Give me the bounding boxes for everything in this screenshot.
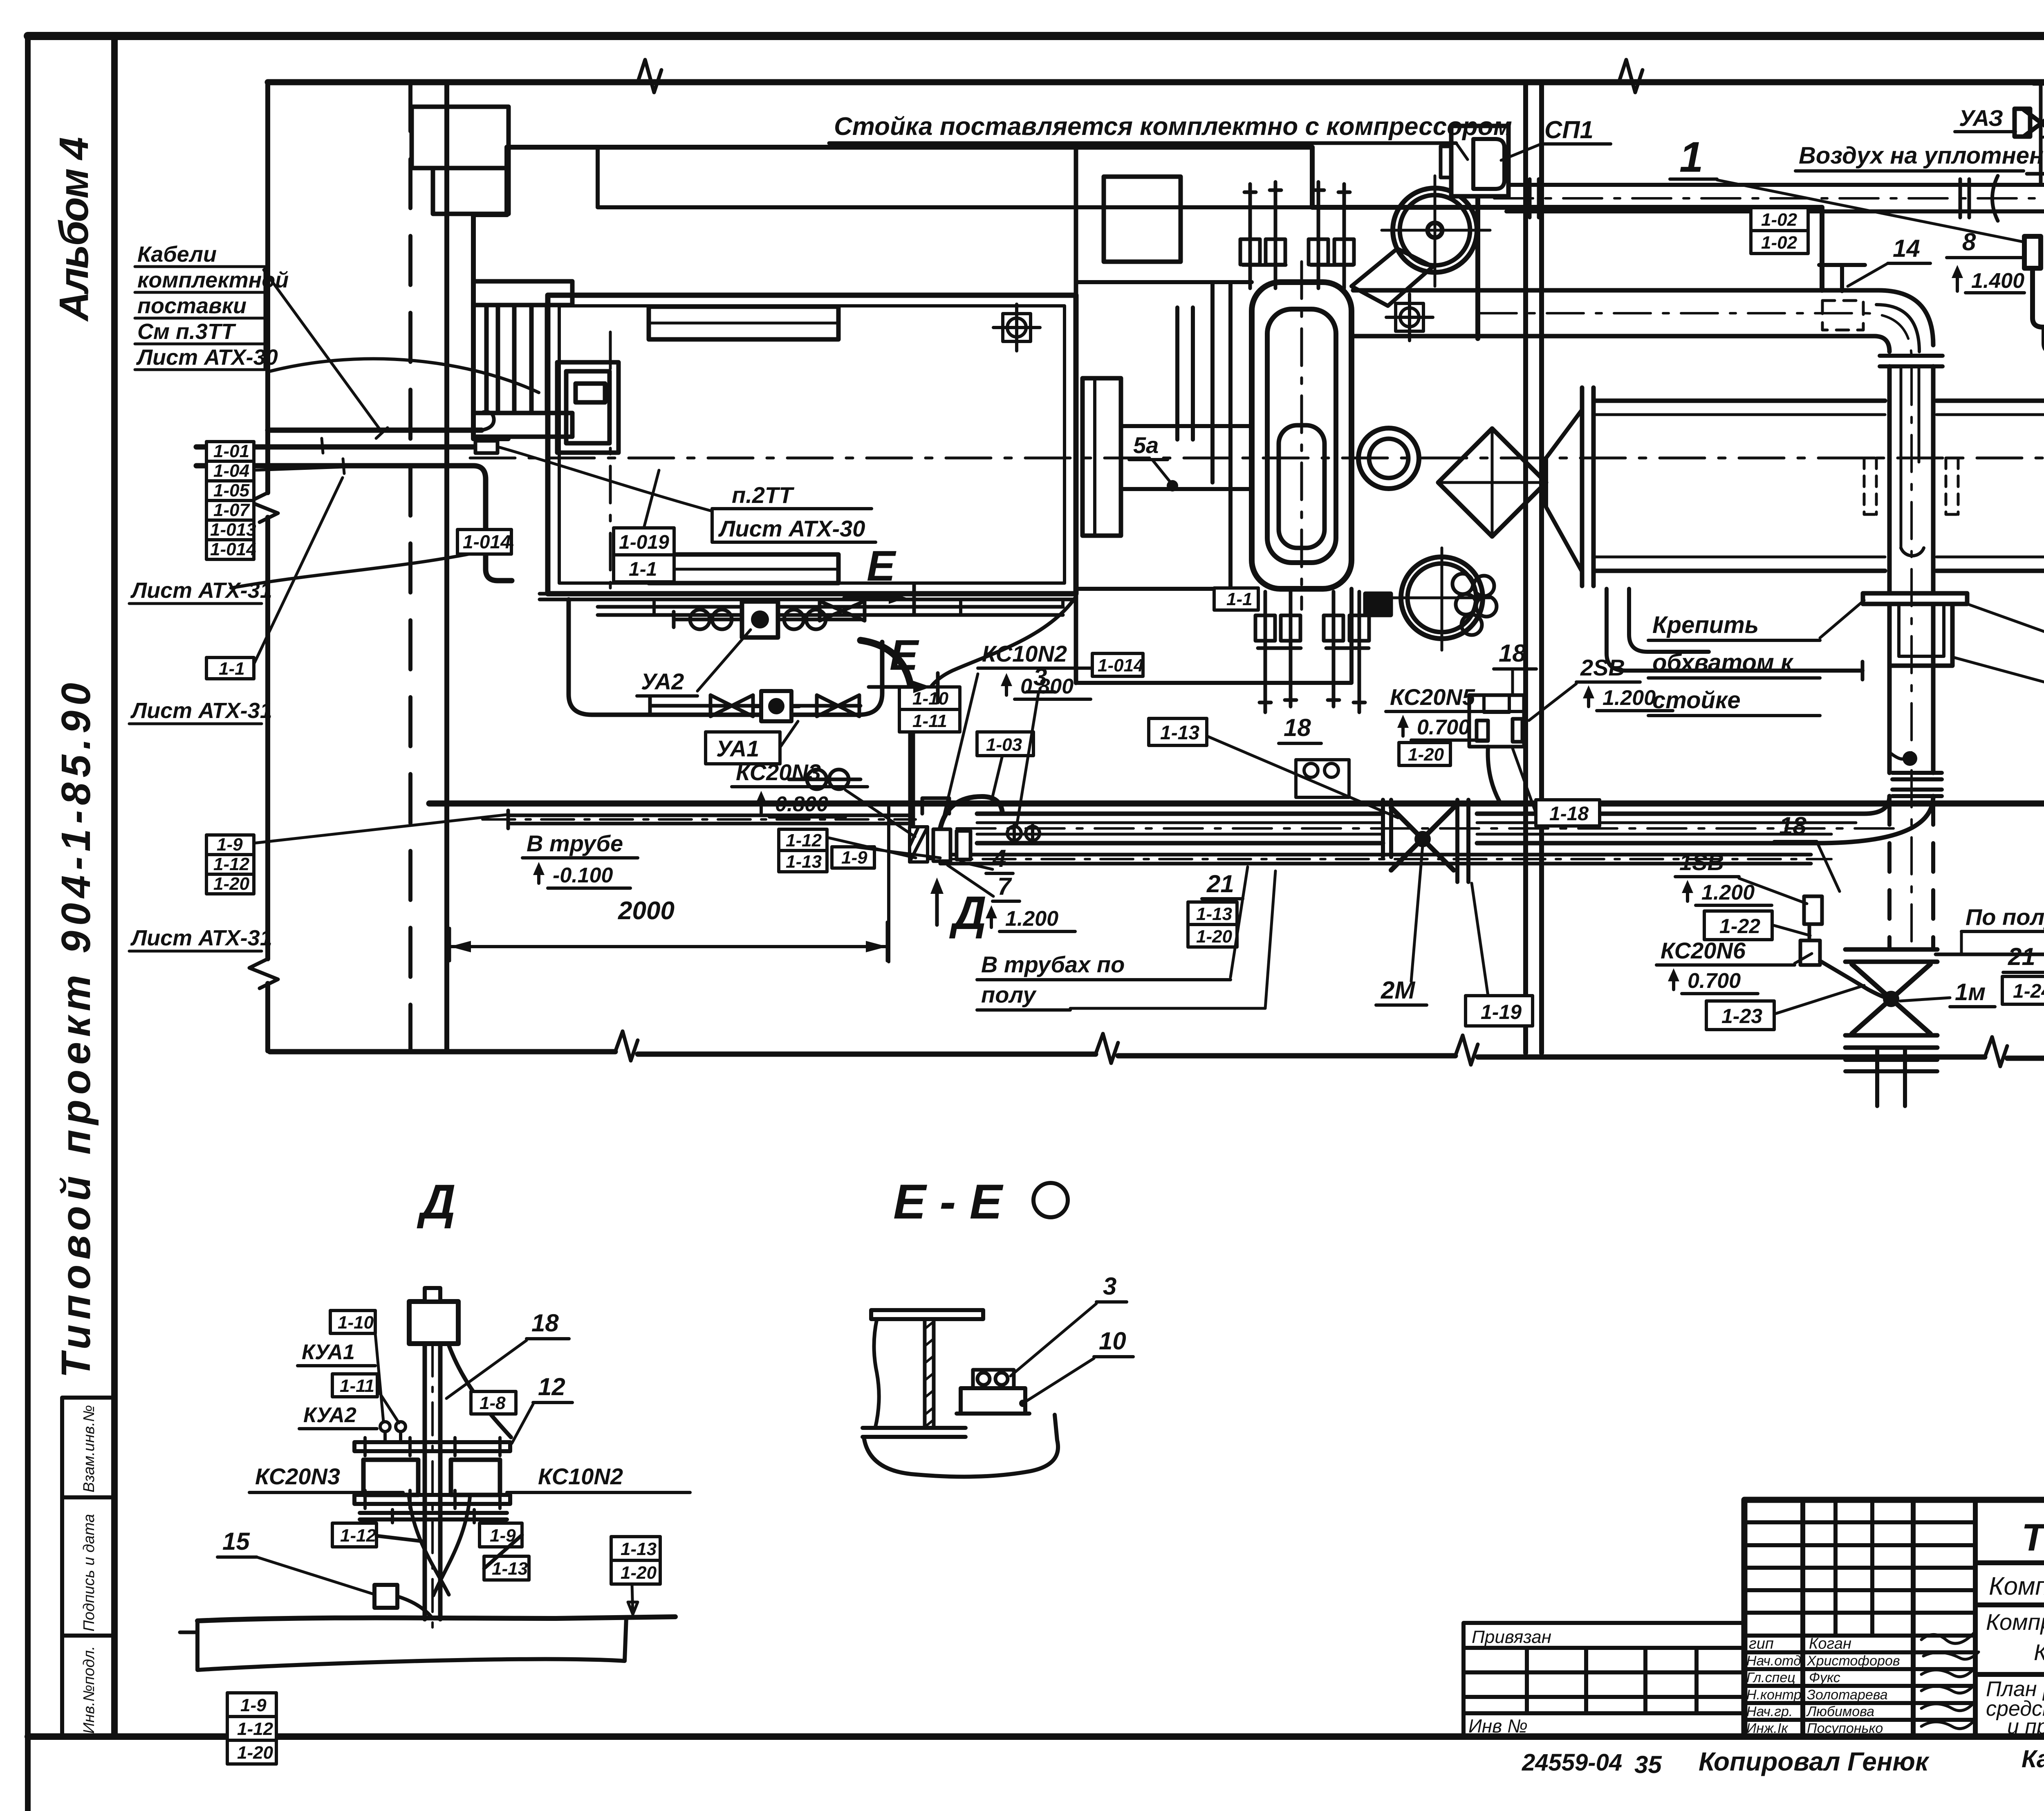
cable 2 connector	[475, 441, 498, 453]
revision grid rows	[1744, 1522, 1975, 1636]
plan bottom line	[270, 1052, 2044, 1058]
coupling flange plate	[1083, 378, 1121, 536]
section D arrow	[930, 877, 986, 939]
I-beam top flange	[871, 1310, 983, 1319]
label UA1 boxed	[706, 732, 780, 764]
freehand cable curve upper	[270, 359, 539, 393]
leader 1SB	[1739, 878, 1807, 904]
pipe L centerline	[482, 818, 916, 821]
pipe B lower flange	[1892, 773, 1942, 796]
UA1 valve right	[817, 695, 859, 716]
elbow mid arc	[1876, 305, 1919, 352]
leader 1m	[1900, 998, 1950, 1001]
candles top	[1240, 182, 1354, 288]
svg-text:Н.контр.: Н.контр.	[1746, 1687, 1805, 1703]
svg-text:1-10: 1-10	[338, 1313, 374, 1333]
svg-text:Е: Е	[890, 631, 919, 679]
screw square right	[1386, 294, 1433, 341]
leader 11	[1968, 604, 2044, 671]
leader 12	[512, 1404, 533, 1443]
dot 5a	[1167, 480, 1178, 491]
machine mid divider	[1074, 147, 1078, 683]
callout 1-014 mid	[1092, 653, 1144, 676]
UA2 solenoid dot	[751, 610, 769, 628]
motor top fin block	[649, 307, 838, 339]
callout 1-11	[332, 1374, 377, 1397]
leader 2M	[1411, 846, 1423, 981]
svg-text:1-1: 1-1	[1226, 589, 1253, 609]
callout 1-1 left	[206, 658, 254, 679]
svg-text:1-19: 1-19	[1481, 1001, 1522, 1023]
leader 1-18	[1513, 748, 1536, 813]
callout 1-12	[332, 1523, 377, 1547]
fan circle bottom	[1401, 557, 1483, 639]
svg-text:Компрессорная станция: Компрессорная станция	[1986, 1609, 2044, 1635]
black connector on machine	[1365, 594, 1391, 615]
svg-text:1.400: 1.400	[1971, 269, 2024, 293]
svg-text:24559-04: 24559-04	[1522, 1749, 1622, 1776]
svg-text:УА1: УА1	[716, 736, 759, 761]
pipe A centerline curve	[1480, 313, 1912, 360]
svg-text:В трубе: В трубе	[527, 830, 623, 856]
bracket plate top	[473, 281, 572, 305]
pipe M inner walls	[977, 823, 1856, 834]
svg-text:18: 18	[1499, 640, 1526, 667]
svg-text:1.200: 1.200	[1701, 881, 1755, 904]
fan cross top	[1382, 176, 1490, 286]
fan circle top inner	[1400, 195, 1470, 265]
step rect top-left 1	[412, 107, 509, 168]
fan hub top	[1428, 223, 1442, 238]
po polu label	[1961, 904, 2044, 931]
p2TT leader	[500, 447, 712, 511]
svg-text:Альбом 4: Альбом 4	[51, 137, 97, 322]
svg-text:Кабели: Кабели	[137, 242, 217, 267]
leader 18-3	[1817, 842, 1840, 891]
gland circles	[380, 1422, 406, 1442]
label 3	[1027, 663, 1055, 692]
verticals of left part	[1803, 1500, 1975, 1737]
KC20N5 cable	[1488, 747, 1499, 801]
leader v trubakh	[1070, 867, 1275, 1008]
cable gland circles	[1007, 825, 1040, 842]
platform top outline	[507, 147, 1822, 290]
svg-text:Взам.инв.№: Взам.инв.№	[81, 1405, 98, 1492]
bracket columns	[486, 305, 547, 413]
svg-text:1-11: 1-11	[340, 1376, 374, 1396]
svg-text:1-12: 1-12	[237, 1719, 273, 1739]
krepit text	[1648, 612, 1820, 716]
pipe B centerline	[1910, 368, 1913, 953]
I-beam bottom flange	[863, 1428, 966, 1437]
lower stub valve	[789, 770, 861, 789]
pipe B inner lines	[1901, 366, 1919, 548]
label KC20N6	[1656, 938, 1795, 994]
main outline	[1744, 1500, 2044, 1737]
svg-text:По полу: По полу	[1966, 904, 2044, 930]
svg-text:п.2ТТ: п.2ТТ	[732, 482, 795, 508]
svg-text:КС20N5: КС20N5	[1390, 684, 1475, 710]
support bucket	[1889, 604, 1952, 666]
pipe T flange ticks	[1960, 179, 1969, 218]
label 12 section	[533, 1373, 572, 1403]
svg-text:1: 1	[1679, 133, 1703, 181]
label 2M	[1376, 976, 1427, 1005]
leader 1-1	[254, 478, 343, 663]
label KUA1	[298, 1340, 375, 1366]
svg-text:Коган: Коган	[1809, 1635, 1851, 1652]
svg-text:18: 18	[1284, 714, 1311, 741]
fat pipe cone	[1546, 410, 1582, 572]
UA2 solenoid box	[742, 601, 778, 637]
sensor small box	[973, 1370, 1014, 1388]
break mark top wall 2	[1619, 60, 1643, 92]
leader KC10N2	[941, 674, 978, 828]
coupling donut inner	[1369, 439, 1408, 478]
svg-text:КС10N2: КС10N2	[982, 641, 1067, 667]
svg-text:1-014: 1-014	[210, 539, 256, 559]
capsule centerline	[1300, 262, 1303, 609]
svg-text:1-014: 1-014	[463, 531, 511, 552]
center column pair	[1526, 82, 1542, 1053]
label KC10N2	[978, 641, 1113, 699]
svg-text:0.700: 0.700	[1688, 969, 1741, 993]
callout 1-10 1-11	[899, 687, 960, 732]
svg-text:Воздух на уплотнение: Воздух на уплотнение	[1799, 142, 2044, 169]
svg-text:обхватом к: обхватом к	[1652, 649, 1794, 676]
svg-text:7: 7	[997, 873, 1012, 900]
leaders from column	[254, 438, 344, 474]
svg-text:Компрессорная станция 5КЦ-160А: Компрессорная станция 5КЦ-160АО	[1989, 1572, 2044, 1600]
label 5a	[1129, 432, 1168, 460]
svg-text:Т.П. 904-1-85. 90 - АТХ: Т.П. 904-1-85. 90 - АТХ	[2022, 1516, 2044, 1559]
svg-text:1-019: 1-019	[619, 532, 669, 553]
label 18 #1	[1279, 714, 1321, 743]
sensor base	[961, 1388, 1025, 1414]
svg-text:УАЗ: УАЗ	[1959, 105, 2003, 131]
leader 2SB	[1529, 684, 1576, 720]
callout 1-24 right low	[2002, 976, 2044, 1004]
leader 1-9 col	[254, 815, 508, 843]
floor pipe M right	[1477, 814, 1864, 843]
machine base lines	[540, 594, 1076, 599]
section E marker 1	[844, 542, 914, 613]
svg-text:4: 4	[992, 845, 1006, 872]
callout 1-18	[1536, 800, 1600, 826]
callout 1-13	[484, 1556, 529, 1580]
section E marker 2	[869, 631, 938, 702]
pipe A tap dashed box	[1822, 301, 1863, 330]
wall top	[268, 79, 2044, 85]
callout column 1-01	[206, 441, 256, 559]
valve 2M cross	[1391, 808, 1454, 870]
UA1 solenoid	[754, 691, 799, 721]
candles bottom	[1255, 592, 1369, 712]
callout column 1-9	[206, 835, 254, 894]
shaft housing	[1121, 426, 1252, 489]
callout 1-13 1-20 mid	[1188, 902, 1237, 947]
names rows	[1744, 1652, 1975, 1720]
svg-text:См п.3ТТ: См п.3ТТ	[137, 319, 236, 344]
svg-text:Нач.гр.: Нач.гр.	[1746, 1704, 1793, 1719]
UA3 valve cross	[2024, 110, 2044, 137]
callout 1-13 1-20 right	[611, 1537, 660, 1584]
leader 18	[446, 1340, 527, 1398]
svg-text:гип: гип	[1749, 1635, 1774, 1652]
cable 18 curve	[449, 1345, 511, 1437]
svg-text:1-8: 1-8	[480, 1393, 506, 1413]
svg-text:35: 35	[1634, 1751, 1662, 1778]
fin inner line2	[649, 568, 838, 571]
label 4	[986, 845, 1013, 873]
leader UA2	[697, 630, 751, 691]
svg-text:Подпись и дата: Подпись и дата	[81, 1514, 98, 1631]
SP1 box overlay	[1441, 126, 1508, 196]
svg-text:КУА2: КУА2	[303, 1403, 356, 1427]
svg-text:1-9: 1-9	[240, 1695, 267, 1715]
svg-text:1-9: 1-9	[841, 848, 867, 868]
leaders 1-12 col	[827, 837, 940, 858]
elbow low to pipeB	[1817, 796, 1933, 843]
svg-text:1-014: 1-014	[1098, 655, 1144, 675]
label 3 EE	[1096, 1272, 1127, 1302]
floor slab outline	[197, 1618, 626, 1670]
thick cable elbow to KC	[861, 640, 912, 826]
svg-text:Компрессор N1: Компрессор N1	[2034, 1639, 2044, 1665]
E-E circle	[1033, 1183, 1068, 1217]
pipe T upper edges	[1506, 185, 2044, 211]
svg-text:УА2: УА2	[641, 669, 684, 694]
column line	[444, 82, 449, 1051]
floor pipe N	[940, 855, 1811, 864]
svg-text:10: 10	[1099, 1327, 1126, 1355]
callout 1-019 1-1	[614, 528, 674, 582]
leader 15	[257, 1557, 373, 1594]
svg-text:18: 18	[531, 1309, 559, 1337]
label KC10N2 sec	[507, 1463, 690, 1492]
list ATX-31 #1	[129, 578, 272, 604]
UA2 pipe line	[674, 612, 861, 627]
manifold bowtie valve	[820, 601, 865, 621]
sensor plate	[957, 1412, 1029, 1416]
UA1 pipe line	[650, 698, 861, 714]
cable dot on pipe B	[1903, 751, 1917, 766]
svg-text:КУА1: КУА1	[302, 1340, 355, 1364]
cable line 2	[196, 444, 474, 450]
svg-text:14: 14	[1893, 235, 1920, 262]
svg-text:Копировал Генюк: Копировал Генюк	[1699, 1747, 1930, 1776]
label KC20N3 sec	[249, 1463, 403, 1492]
label 21 mid	[1202, 870, 1243, 899]
leader 1-19	[1472, 883, 1488, 996]
label KC20N5	[1386, 684, 1522, 740]
v trube label	[522, 830, 638, 888]
platform left bracket	[473, 147, 508, 439]
callout 1-20	[1399, 743, 1450, 765]
UA3 solenoid box	[2015, 109, 2030, 137]
flange bottom bars	[354, 1495, 510, 1519]
svg-text:КС20N6: КС20N6	[1661, 938, 1746, 963]
inner platform line	[598, 147, 1312, 207]
valve 1M bottom flange	[1845, 1035, 1937, 1048]
step rect top-left 2	[433, 168, 509, 214]
right part horizontals	[1975, 1563, 2044, 1674]
label 10 EE	[1094, 1327, 1133, 1357]
section cut vertical	[887, 802, 890, 962]
svg-text:1-13: 1-13	[492, 1559, 528, 1579]
bracket plate bottom	[473, 413, 572, 437]
terminal box	[557, 362, 619, 453]
drain line tick	[1861, 662, 1865, 680]
leader 1-03	[993, 756, 1002, 797]
svg-text:8: 8	[1962, 228, 1976, 256]
leaders to glands	[374, 1325, 399, 1423]
pipe T centerline	[1494, 197, 2044, 200]
callout 1-10	[330, 1311, 375, 1333]
connector cable	[397, 1596, 433, 1618]
KC box 3	[957, 831, 970, 859]
fat pipe flange	[1582, 388, 1594, 586]
diamond distributor	[1438, 429, 1546, 536]
callout 1-23	[1706, 1001, 1774, 1030]
sensor block lower machine	[1296, 760, 1349, 797]
svg-text:Фукс: Фукс	[1809, 1670, 1840, 1685]
svg-text:КС20N3: КС20N3	[736, 759, 821, 785]
cable connector top right	[2024, 236, 2041, 268]
terminal window	[576, 384, 605, 402]
SP1 instrument box	[1451, 126, 1508, 196]
floor left notch	[180, 1631, 197, 1634]
label 18 #2	[1494, 640, 1536, 669]
pipe A T-tap	[1819, 265, 1865, 291]
UA2 valve right	[784, 610, 826, 629]
label 14	[1888, 235, 1930, 263]
cable line 1	[268, 428, 482, 433]
svg-text:0.800: 0.800	[775, 792, 828, 816]
I-beam wavy left edge	[874, 1319, 879, 1428]
cable line 3	[196, 466, 512, 581]
pipe from B flange to 1M	[1889, 796, 1933, 949]
callout 1-8	[471, 1391, 516, 1414]
leader UA1	[780, 721, 798, 747]
svg-text:0.700: 0.700	[1417, 716, 1470, 739]
svg-text:3: 3	[1103, 1272, 1116, 1300]
svg-text:1-13: 1-13	[1160, 722, 1199, 744]
web hatch	[925, 1322, 934, 1427]
svg-text:1-1: 1-1	[629, 559, 657, 580]
screw square left	[993, 304, 1040, 351]
leader 3 EE	[1011, 1304, 1096, 1376]
leader 1	[1717, 180, 2024, 242]
svg-text:1-12: 1-12	[786, 830, 822, 851]
pipe B walls	[1889, 366, 1933, 773]
svg-text:1-20: 1-20	[1196, 927, 1233, 947]
svg-text:Лист АТХ-30: Лист АТХ-30	[136, 345, 278, 370]
po polu cable	[1936, 945, 2044, 954]
motor outline	[548, 295, 1076, 594]
svg-text:1-12: 1-12	[340, 1526, 377, 1546]
coupling flange inner	[1093, 378, 1096, 536]
pipe T flange arc	[1992, 176, 1998, 221]
svg-text:КС10N2: КС10N2	[538, 1463, 623, 1489]
svg-text:21: 21	[2008, 943, 2035, 970]
valve 1M pipe below	[1877, 1048, 1905, 1106]
svg-text:1-20: 1-20	[621, 1563, 657, 1583]
label 18 #3	[1774, 812, 1817, 842]
1SB sensor rects	[1800, 896, 1822, 965]
drain line from flange	[1607, 589, 1862, 671]
leader 4-7	[948, 862, 993, 896]
floor connector box	[374, 1585, 397, 1608]
block KC10N2	[451, 1460, 500, 1495]
inner frame left	[111, 36, 118, 1737]
diamond cross	[1438, 429, 1546, 536]
label 2SB	[1576, 655, 1673, 711]
fan circle bottom inner	[1407, 563, 1476, 632]
svg-text:1-9: 1-9	[217, 835, 243, 855]
fat pipe top edge	[1594, 399, 2044, 403]
svg-text:Стойка поставляется комплект: Стойка поставляется комплектно с компрес…	[834, 112, 1512, 141]
fan cross bottom	[1392, 548, 1492, 650]
bottom annotation	[1522, 1745, 2044, 1778]
SP1 label	[1541, 116, 1611, 144]
svg-text:1-20: 1-20	[237, 1743, 273, 1763]
svg-text:Инв.№подл.: Инв.№подл.	[81, 1646, 98, 1734]
flange stack left of capsule	[1177, 282, 1230, 589]
break marks bottom	[615, 1031, 638, 1061]
svg-text:Крепить: Крепить	[1652, 612, 1759, 638]
fat pipe inner walls	[1594, 415, 2044, 557]
valve 1M dot	[1883, 991, 1899, 1007]
compressor capsule inner	[1267, 309, 1336, 563]
border top	[28, 32, 2044, 40]
UA3 ticks	[2027, 84, 2044, 174]
funnel top	[1351, 249, 1433, 306]
svg-text:Любимова: Любимова	[1806, 1704, 1874, 1719]
svg-text:1-1: 1-1	[219, 659, 245, 679]
svg-text:1.200: 1.200	[1005, 907, 1058, 931]
KC box 2	[933, 829, 950, 861]
leader 1-13	[1207, 736, 1398, 818]
svg-text:Е - Е: Е - Е	[893, 1174, 1004, 1229]
plus ticks bottom	[365, 1490, 500, 1523]
elbow flange bars	[1880, 356, 1943, 366]
leader 1-23	[1774, 985, 1864, 1014]
svg-text:12: 12	[538, 1373, 565, 1400]
po polu bracket	[1960, 931, 1963, 954]
break mark top wall 1	[638, 60, 661, 92]
stamp boxes	[62, 1398, 114, 1737]
callout 1-1 mid	[1214, 588, 1258, 610]
svg-text:1-07: 1-07	[213, 500, 251, 520]
KC hatched box 1	[910, 827, 928, 862]
svg-text:1SB: 1SB	[1679, 849, 1724, 875]
callout 1-12 1-13 1-9	[779, 829, 874, 872]
svg-text:Кальку сверил Посупонько фо: Кальку сверил Посупонько формат А2	[2022, 1745, 2044, 1773]
label 15	[217, 1528, 257, 1557]
compressor base lines	[1076, 282, 1252, 589]
svg-text:1-01: 1-01	[213, 441, 249, 461]
svg-text:1.200: 1.200	[1602, 686, 1656, 710]
p2TT label	[712, 482, 876, 542]
svg-text:Инж.Iк: Инж.Iк	[1746, 1721, 1788, 1736]
svg-text:стойке: стойке	[1652, 687, 1741, 714]
callout 1-19	[1466, 996, 1533, 1026]
leader 10 EE	[1023, 1358, 1094, 1403]
compressor capsule core	[1279, 425, 1325, 548]
svg-text:15: 15	[222, 1528, 250, 1555]
leader krepit	[1820, 600, 1864, 638]
